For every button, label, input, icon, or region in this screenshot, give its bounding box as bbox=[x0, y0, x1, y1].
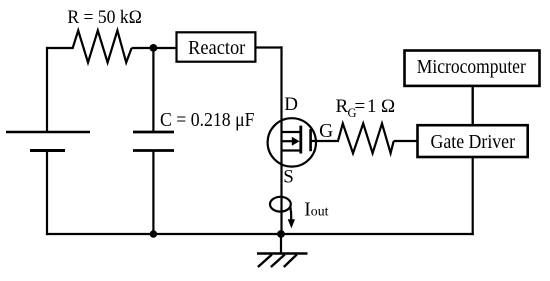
reactor box L1 bbox=[177, 32, 256, 61]
transistor Q1 drain stub bbox=[282, 131, 302, 133]
transistor Q1 body arrow line bbox=[282, 140, 294, 142]
current probe Iout tail bbox=[289, 207, 292, 221]
wire gate bar to RG bbox=[311, 140, 339, 142]
ground bbox=[257, 234, 308, 267]
gate driver box U1 bbox=[418, 125, 528, 157]
transistor Q1 gate bar bbox=[309, 129, 312, 151]
capacitor C = 0.218 uF bbox=[133, 132, 174, 151]
svg-text:Iout: Iout bbox=[304, 200, 328, 221]
resistor RG = 1 Ohm bbox=[338, 124, 394, 154]
wire capacitor bottom plate down to rail bbox=[152, 151, 154, 235]
microcomputer box U2 bbox=[405, 51, 540, 86]
wire drain vertical (corner down through MOSFET to bottom node) bbox=[280, 46, 282, 234]
wire Microcomputer to Gate Driver bbox=[472, 86, 474, 126]
node B (junction dot on rail below C) bbox=[150, 230, 157, 237]
svg-text:Reactor: Reactor bbox=[188, 37, 246, 59]
svg-text:C = 0.218 μF: C = 0.218 μF bbox=[160, 109, 255, 131]
transistor Q1 source stub bbox=[282, 149, 302, 151]
current probe Iout loop bbox=[270, 197, 291, 212]
svg-text:G: G bbox=[319, 121, 333, 142]
wire RG to Gate Driver bbox=[394, 140, 419, 142]
wire bottom rail bbox=[46, 233, 474, 235]
wire top-left horizontal (battery+ to R) bbox=[46, 47, 74, 49]
resistor R = 50 kOhm bbox=[73, 31, 132, 63]
wire battery - down to bottom rail bbox=[46, 151, 48, 236]
battery V1 bbox=[6, 132, 90, 151]
node A (junction dot, R/Reactor/C) bbox=[150, 44, 158, 52]
node C (junction dot, S to rail/ground) bbox=[277, 230, 285, 238]
current probe Iout arrowhead bbox=[288, 219, 295, 228]
wire Reactor right to top corner bbox=[255, 46, 282, 48]
wire Gate Driver down to rail bbox=[472, 157, 474, 235]
transistor Q1 body arrowhead bbox=[292, 137, 300, 146]
svg-text:Microcomputer: Microcomputer bbox=[417, 56, 526, 78]
transistor Q1 MOSFET body circle bbox=[268, 118, 316, 166]
wire R right to node A to Reactor bbox=[132, 47, 178, 49]
wire node A down to capacitor top plate bbox=[152, 48, 154, 132]
svg-text:R = 50 kΩ: R = 50 kΩ bbox=[67, 7, 141, 28]
wire left vertical (top corner down to battery +) bbox=[46, 47, 48, 132]
transistor Q1 channel bar bbox=[299, 126, 302, 154]
svg-text:D: D bbox=[284, 94, 298, 115]
svg-text:Gate Driver: Gate Driver bbox=[431, 131, 516, 153]
svg-text:S: S bbox=[283, 167, 294, 188]
